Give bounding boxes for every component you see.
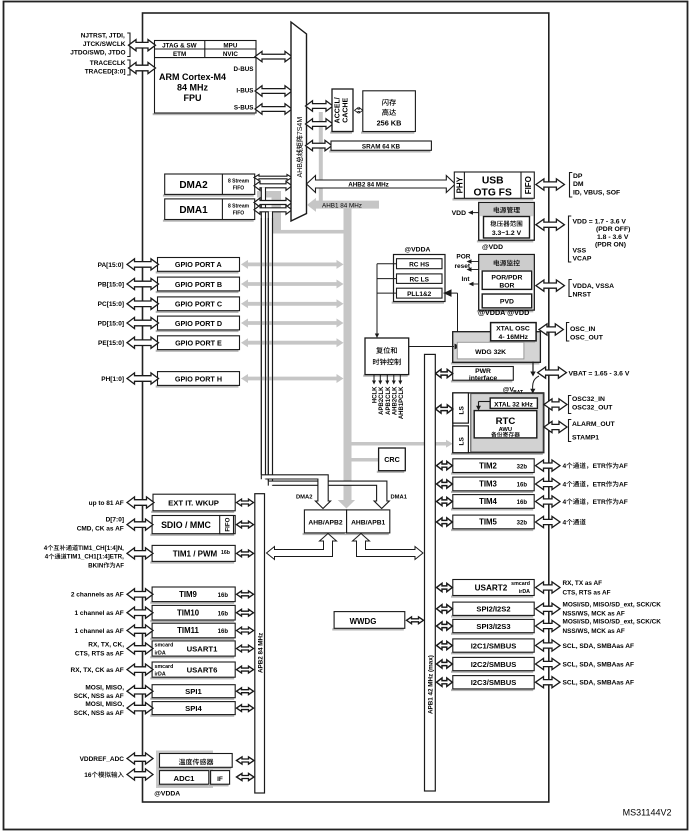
flash box xyxy=(361,132,414,134)
arrow OSC external xyxy=(539,324,563,335)
svg-text:SCL, SDA, SMBAas AF: SCL, SDA, SMBAas AF xyxy=(563,643,635,650)
svg-text:OSC_IN: OSC_IN xyxy=(570,326,595,333)
GPIO PORT H box xyxy=(156,385,239,387)
svg-text:STAMP1: STAMP1 xyxy=(572,435,599,442)
clock gray box xyxy=(451,362,540,364)
svg-text:SCL, SDA, SMBAas AF: SCL, SDA, SMBAas AF xyxy=(563,661,635,668)
arrow I2C1/SMBUS pins xyxy=(536,640,561,651)
arrow VBAT external xyxy=(538,367,567,378)
DMA2 channel line redraw xyxy=(260,218,262,475)
DMA1 channel elbow and arrow into AHB/APB1 xyxy=(268,481,389,508)
svg-text:PC[15:0]: PC[15:0] xyxy=(98,301,124,308)
CPU ARM Cortex-M4 box xyxy=(153,113,255,115)
arrow temp-APB2 xyxy=(237,757,255,764)
svg-text:1.8 - 3.6 V: 1.8 - 3.6 V xyxy=(597,234,629,241)
svg-text:ETR: ETR xyxy=(593,499,606,506)
RC container box xyxy=(392,302,444,304)
RTC box xyxy=(474,411,537,438)
svg-text:TIM4: TIM4 xyxy=(479,497,497,506)
ADC1 box xyxy=(158,784,208,786)
svg-text:JTCK/SWCLK: JTCK/SWCLK xyxy=(83,41,126,48)
svg-text:AHB/APB2: AHB/APB2 xyxy=(308,520,342,527)
PLL box xyxy=(397,288,443,298)
arrow I2C3/SMBUS-APB1 xyxy=(437,678,453,686)
svg-text:ADC1: ADC1 xyxy=(174,774,196,783)
svg-text:OTG FS: OTG FS xyxy=(474,188,512,199)
svg-text:D[7:0]: D[7:0] xyxy=(106,517,124,524)
svg-text:CTS, RTS as AF: CTS, RTS as AF xyxy=(563,589,611,596)
svg-text:AF: AF xyxy=(619,481,628,488)
svg-text:BKIN: BKIN xyxy=(88,562,104,569)
svg-text:OSC32_IN: OSC32_IN xyxy=(572,396,605,403)
arrow TIM2 pins xyxy=(536,460,561,471)
svg-text:GPIO PORT D: GPIO PORT D xyxy=(175,319,222,328)
SPI2/I2S2 box xyxy=(451,615,533,617)
TIM3 box xyxy=(451,491,533,493)
svg-text:NSS/WS, MCK as AF: NSS/WS, MCK as AF xyxy=(563,611,625,618)
svg-text:1 channel as AF: 1 channel as AF xyxy=(75,628,124,635)
svg-text:ETR: ETR xyxy=(593,481,606,488)
arrow OSC32 external xyxy=(544,399,567,410)
svg-text:D-BUS: D-BUS xyxy=(234,66,254,73)
svg-text:OSC32_OUT: OSC32_OUT xyxy=(572,405,613,412)
temp sensor box xyxy=(158,767,232,769)
USART1 box xyxy=(150,656,234,658)
svg-text:PB[15:0]: PB[15:0] xyxy=(98,281,124,288)
svg-text:VDD = 1.7 - 3.6 V: VDD = 1.7 - 3.6 V xyxy=(573,219,627,226)
arrow I2C1/SMBUS-APB1 xyxy=(437,641,453,649)
svg-text:TIM1_CH1[1:4]ETR,: TIM1_CH1[1:4]ETR, xyxy=(67,554,124,561)
GPIO PORT D box xyxy=(156,330,239,332)
arrow NVIC to matrix xyxy=(255,51,292,61)
arrow SPI2/I2S2 pins xyxy=(536,603,561,614)
svg-text:MPU: MPU xyxy=(223,42,237,49)
arrow bridge to APB2 bar xyxy=(267,534,337,560)
svg-text:3.3~1.2 V: 3.3~1.2 V xyxy=(492,230,522,237)
gray bus vertical drop to GPIO bar xyxy=(272,191,282,234)
svg-text:MOSI/SD, MISO/SD_ext, SCK/CK: MOSI/SD, MISO/SD_ext, SCK/CK xyxy=(563,601,662,608)
wire RC LS stub xyxy=(377,278,397,280)
power monitor 电源监控 box xyxy=(477,310,533,312)
svg-text:PWR: PWR xyxy=(475,368,491,375)
arrow USART6-APB2 xyxy=(237,666,254,673)
gray bus GPIO PORT D link xyxy=(247,321,338,325)
SDIO FIFO box xyxy=(220,516,234,534)
arrow SDIO pins xyxy=(127,519,153,530)
svg-text:S-BUS: S-BUS xyxy=(234,105,254,112)
svg-text:PA[15:0]: PA[15:0] xyxy=(98,262,124,269)
svg-text:AHB1PCLK: AHB1PCLK xyxy=(399,386,405,419)
svg-text:AF: AF xyxy=(619,463,628,470)
AHB/APB2 bridge box xyxy=(303,533,346,535)
svg-text:RX, TX, CK,: RX, TX, CK, xyxy=(88,642,124,649)
label FIFO xyxy=(524,176,533,194)
svg-text:I2C1/SMBUS: I2C1/SMBUS xyxy=(471,641,517,650)
svg-text:4- 16MHz: 4- 16MHz xyxy=(499,334,529,341)
svg-text:SDIO / MMC: SDIO / MMC xyxy=(161,520,211,530)
arrow TIM11-APB2 xyxy=(237,627,254,634)
wire PLL stub xyxy=(377,292,397,294)
PVD box xyxy=(482,294,532,308)
svg-text:AHB2CLK: AHB2CLK xyxy=(392,386,398,415)
POR/PDR BOR box xyxy=(482,271,532,289)
arrow EXT IT pins xyxy=(127,497,154,508)
gray bus AHB1 arrowhead into AHB/APB1 xyxy=(338,500,355,509)
svg-text:4: 4 xyxy=(563,463,567,470)
svg-text:SRAM 64 KB: SRAM 64 KB xyxy=(362,143,401,150)
svg-text:AF: AF xyxy=(619,499,628,506)
svg-text:SPI4: SPI4 xyxy=(185,704,202,713)
svg-text:32b: 32b xyxy=(517,521,528,527)
svg-text:4: 4 xyxy=(563,519,567,526)
I2C3/SMBUS box xyxy=(451,689,533,691)
svg-text:USART2: USART2 xyxy=(475,584,508,593)
arrow S-BUS to matrix xyxy=(255,104,292,114)
arrow matrix-ACCEL upper xyxy=(306,101,334,111)
svg-text:16: 16 xyxy=(84,772,92,779)
gray spur RTC LS arrow segment xyxy=(435,442,446,446)
arrow DMA2-matrix thin xyxy=(254,175,292,181)
wire Int arrow xyxy=(471,283,479,285)
label 备份寄存器 xyxy=(491,432,520,437)
svg-text:XTAL 32 kHz: XTAL 32 kHz xyxy=(494,401,534,408)
wire RC into RCC arrowhead xyxy=(375,334,379,339)
arrow port D pins xyxy=(127,317,159,328)
svg-text:PD[15:0]: PD[15:0] xyxy=(98,320,124,327)
AHB/APB1 bridge box xyxy=(345,533,389,535)
svg-text:PH[1:0]: PH[1:0] xyxy=(101,376,124,383)
wire XTAL to PLL xyxy=(444,292,458,294)
arrow SPI4-APB2 xyxy=(237,705,254,712)
arrow WWDG-APB1 xyxy=(407,617,424,624)
connector ACCEL-flash xyxy=(355,108,363,113)
gray bus AHB1 vertical spur near flash xyxy=(319,112,323,204)
svg-text:TRACECLK: TRACECLK xyxy=(90,60,126,67)
label LS lower xyxy=(458,437,465,446)
svg-text:84 MHz: 84 MHz xyxy=(177,83,209,93)
TIM2 box xyxy=(451,472,533,474)
I2C1/SMBUS box xyxy=(451,652,533,654)
svg-text:7S4M: 7S4M xyxy=(297,117,304,135)
TIM9 box xyxy=(150,602,234,604)
svg-text:VDDA, VSSA: VDDA, VSSA xyxy=(573,283,615,290)
bracket VDDA pins xyxy=(569,280,572,297)
svg-text:ALARM_OUT: ALARM_OUT xyxy=(572,421,616,428)
arrow I-BUS to matrix xyxy=(255,86,292,96)
XTAL 32kHz box xyxy=(490,398,537,408)
arrow bridge to APB1 bar xyxy=(353,534,424,560)
gray bus DMA-area patch xyxy=(257,191,281,198)
svg-text:WWDG: WWDG xyxy=(350,617,377,626)
arrow adc-APB2 xyxy=(237,773,255,780)
arrow port E pins xyxy=(127,337,159,348)
svg-text:up to 81 AF: up to 81 AF xyxy=(89,500,124,507)
arrow TIM9 pins xyxy=(127,589,153,600)
svg-text:SPI3/I2S3: SPI3/I2S3 xyxy=(476,622,510,631)
svg-text:@VDDA: @VDDA xyxy=(154,791,180,798)
svg-text:RC LS: RC LS xyxy=(409,276,429,283)
svg-text:DM: DM xyxy=(573,181,584,188)
USART2 box xyxy=(451,596,533,598)
label 温度传感器 xyxy=(179,759,214,766)
GPIO PORT C box xyxy=(156,311,239,313)
I2C2/SMBUS box xyxy=(451,671,533,673)
DMA2 channel elbow and arrow into AHB/APB2 xyxy=(261,475,330,509)
gray AHB1 bus arrow xyxy=(307,198,379,212)
arrow matrix-ACCEL lower xyxy=(306,119,334,129)
svg-text:SPI1: SPI1 xyxy=(185,687,202,696)
arrow TIM5 pins xyxy=(536,516,561,527)
CRC box xyxy=(377,471,405,473)
svg-text:16b: 16b xyxy=(218,593,229,599)
svg-text:32b: 32b xyxy=(517,464,528,470)
TIM1/PWM box xyxy=(150,561,234,563)
TIM5 box xyxy=(451,529,533,531)
svg-text:RX, TX as AF: RX, TX as AF xyxy=(563,580,603,587)
arrow SPI3/I2S3-APB1 xyxy=(437,622,453,630)
svg-text:8 Stream: 8 Stream xyxy=(228,179,250,185)
svg-text:@VDD: @VDD xyxy=(482,244,503,251)
arrow I2C2/SMBUS-APB1 xyxy=(437,660,453,668)
svg-text:TIM9: TIM9 xyxy=(179,590,197,599)
arrow port A pins xyxy=(127,259,159,270)
svg-text:ARM Cortex-M4: ARM Cortex-M4 xyxy=(159,72,226,82)
label 复位和 xyxy=(376,347,397,354)
svg-text:FIFO: FIFO xyxy=(524,176,533,194)
arrow TIM3-APB1 xyxy=(437,480,453,488)
DMA1 divider xyxy=(221,199,223,220)
svg-text:LS: LS xyxy=(458,437,465,446)
svg-text:4: 4 xyxy=(563,481,567,488)
label APB2 84 MHz xyxy=(257,633,264,673)
wire VBAT down arrow xyxy=(532,362,534,373)
DMA1 box xyxy=(163,220,254,222)
svg-text:Int: Int xyxy=(462,276,471,283)
gray bus GPIO horizontal bar xyxy=(279,230,345,234)
svg-text:CMD, CK as AF: CMD, CK as AF xyxy=(77,526,124,533)
svg-text:irDA: irDA xyxy=(155,651,166,657)
power monitor header xyxy=(479,255,533,270)
svg-text:AF: AF xyxy=(116,562,124,569)
svg-text:USART6: USART6 xyxy=(187,665,218,674)
arrow TIM4-APB1 xyxy=(437,497,453,505)
gray bus GPIO PORT H link xyxy=(247,377,338,381)
arrow EXT IT-APB2 xyxy=(237,499,254,506)
wire VDD arrow xyxy=(471,212,479,214)
arrow port H pins xyxy=(127,373,159,384)
SPI1 box xyxy=(150,698,234,700)
svg-text:NVIC: NVIC xyxy=(223,51,238,58)
DMA1 channel line redraw xyxy=(267,218,269,481)
arrow USART6 pins xyxy=(127,664,153,675)
arrow DMA1-matrix lower xyxy=(254,205,292,214)
arrow VDD external xyxy=(536,219,565,230)
arrow I2C3/SMBUS pins xyxy=(536,677,561,688)
APB2 bus bar xyxy=(255,494,265,793)
GPIO PORT E box xyxy=(156,350,239,352)
WDG 32K box xyxy=(457,342,524,359)
power mgmt header xyxy=(479,203,533,216)
svg-text:irDA: irDA xyxy=(155,672,166,678)
bracket ALARM xyxy=(569,420,572,442)
svg-text:NRST: NRST xyxy=(573,292,592,299)
label flash 高达 xyxy=(382,109,396,116)
svg-text:TIM5: TIM5 xyxy=(479,518,497,527)
svg-text:IF: IF xyxy=(217,776,223,783)
arrow TIM9-APB2 xyxy=(237,591,254,598)
svg-text:DMA1: DMA1 xyxy=(179,205,208,216)
label ACCEL/CACHE xyxy=(334,97,341,123)
gray spur to CRC xyxy=(352,458,379,462)
ADC gray domain box xyxy=(156,751,213,789)
arrow temp pins xyxy=(127,753,153,764)
svg-text:4: 4 xyxy=(44,545,48,552)
arrow port B pins xyxy=(127,278,159,289)
PWR interface box xyxy=(451,380,512,382)
label APB1 42 MHz xyxy=(428,655,435,714)
svg-text:NJTRST, JTDI,: NJTRST, JTDI, xyxy=(81,33,125,40)
svg-text:ETR: ETR xyxy=(593,463,606,470)
EXT IT WKUP box xyxy=(151,511,234,513)
arrow TIM1-APB2 xyxy=(237,550,254,557)
RTC backup gray domain xyxy=(471,394,543,452)
label 稳压器范围 xyxy=(490,220,522,226)
arrow TIM10-APB2 xyxy=(237,609,254,616)
svg-text:TIM2: TIM2 xyxy=(479,461,497,470)
svg-text:CTS, RTS as AF: CTS, RTS as AF xyxy=(75,650,124,657)
svg-text:MS31144V2: MS31144V2 xyxy=(623,808,672,818)
svg-text:I2C3/SMBUS: I2C3/SMBUS xyxy=(471,678,517,687)
arrow TIM10 pins xyxy=(127,607,153,618)
svg-text:16b: 16b xyxy=(218,629,229,635)
arrow VDDA external xyxy=(536,280,565,291)
svg-text:FIFO: FIFO xyxy=(233,186,244,192)
svg-text:PE[15:0]: PE[15:0] xyxy=(98,340,124,347)
svg-text:4: 4 xyxy=(45,554,49,561)
CPU row divider lines xyxy=(155,48,257,50)
label flash 闪存 xyxy=(382,99,396,106)
svg-text:NSS/WS, MCK as AF: NSS/WS, MCK as AF xyxy=(563,628,625,635)
svg-text:smcard: smcard xyxy=(155,664,174,670)
regulator box xyxy=(484,217,530,239)
svg-text:ACCEL/: ACCEL/ xyxy=(334,97,341,123)
svg-text:TIM1 / PWM: TIM1 / PWM xyxy=(173,549,218,558)
arrow TIM11 pins xyxy=(127,625,153,636)
svg-text:2 channels as AF: 2 channels as AF xyxy=(71,592,124,599)
svg-text:VDD: VDD xyxy=(452,210,466,217)
wire RCC to WDG box xyxy=(409,346,454,348)
arrow I2C2/SMBUS pins xyxy=(536,658,561,669)
wire VBAT to backup curve xyxy=(533,376,539,390)
label LS upper xyxy=(458,406,465,415)
svg-text:TIM1_CH[1:4]N,: TIM1_CH[1:4]N, xyxy=(78,545,124,552)
SPI4 box xyxy=(150,715,234,717)
DMA2 box xyxy=(163,194,254,196)
svg-text:VSS: VSS xyxy=(573,248,587,255)
USART6 box xyxy=(150,677,234,679)
svg-text:JTAG & SW: JTAG & SW xyxy=(162,42,197,49)
svg-text:SPI2/I2S2: SPI2/I2S2 xyxy=(476,605,510,614)
svg-text:JTDO/SWD, JTDO: JTDO/SWD, JTDO xyxy=(70,50,125,57)
svg-text:MOSI/SD, MISO/SD_ext, SCK/CK: MOSI/SD, MISO/SD_ext, SCK/CK xyxy=(563,619,662,626)
SDIO/MMC box xyxy=(150,534,234,536)
svg-text:ETM: ETM xyxy=(173,51,186,58)
svg-text:VBAT = 1.65 - 3.6 V: VBAT = 1.65 - 3.6 V xyxy=(569,371,630,378)
svg-text:APB2 84 MHz: APB2 84 MHz xyxy=(257,633,264,673)
svg-text:POR: POR xyxy=(456,254,470,261)
RCC clock output labels xyxy=(373,386,379,403)
svg-text:256 KB: 256 KB xyxy=(377,119,402,128)
RTC outer box xyxy=(451,453,543,455)
svg-text:smcard: smcard xyxy=(155,643,174,649)
svg-text:APB1CLK: APB1CLK xyxy=(386,386,392,415)
svg-text:WDG 32K: WDG 32K xyxy=(475,349,506,356)
SPI3/I2S3 box xyxy=(451,633,533,635)
gray bus GPIO PORT B link xyxy=(247,282,338,286)
DMA1 peripheral-bus channel vertical xyxy=(268,211,272,485)
svg-text:(PDR OFF): (PDR OFF) xyxy=(596,226,630,233)
svg-text:CACHE: CACHE xyxy=(342,98,349,123)
AHB bus matrix trapezoid xyxy=(291,22,307,221)
label PHY xyxy=(455,176,464,193)
XTAL OSC box xyxy=(489,341,535,343)
WWDG box xyxy=(332,628,404,630)
svg-text:LS: LS xyxy=(458,406,465,415)
wire XTAL32 to RTC xyxy=(479,401,491,403)
svg-text:RTC: RTC xyxy=(496,416,516,427)
ADC IF box xyxy=(209,784,229,786)
svg-text:PLL1&2: PLL1&2 xyxy=(407,291,432,298)
arrow TIM2-APB1 xyxy=(437,461,453,469)
svg-text:PVD: PVD xyxy=(500,299,514,306)
label AHB bus matrix 7S4M xyxy=(296,117,304,178)
GPIO PORT A box xyxy=(156,271,239,273)
svg-text:16b: 16b xyxy=(218,611,229,617)
MCU inner border xyxy=(143,13,549,802)
DMA2 divider xyxy=(221,174,223,194)
svg-text:irDA: irDA xyxy=(519,589,530,595)
bracket jtag signals xyxy=(127,33,130,57)
svg-text:FPU: FPU xyxy=(184,93,202,103)
TIM4 box xyxy=(451,508,533,510)
svg-text:VDDREF_ADC: VDDREF_ADC xyxy=(80,756,125,763)
bracket OSC pins xyxy=(567,323,570,342)
svg-text:DP: DP xyxy=(573,173,583,180)
wire RC HS stub xyxy=(377,263,397,265)
gray bus GPIO PORT E link xyxy=(247,341,338,345)
arrow TIM1 pins xyxy=(127,548,153,559)
arrow AHB2 bus xyxy=(307,176,456,193)
svg-text:RX, TX, CK as AF: RX, TX, CK as AF xyxy=(71,667,124,674)
svg-text:DMA2: DMA2 xyxy=(296,495,312,501)
svg-text:DMA2: DMA2 xyxy=(179,180,208,191)
svg-text:CRC: CRC xyxy=(384,455,400,464)
svg-text:VCAP: VCAP xyxy=(573,256,592,263)
svg-text:HCLK: HCLK xyxy=(373,386,379,403)
svg-text:AHB1 84 MHz: AHB1 84 MHz xyxy=(322,202,362,209)
arrow APB1-PWR xyxy=(436,369,453,377)
svg-text:GPIO PORT E: GPIO PORT E xyxy=(175,339,222,348)
svg-text:I-BUS: I-BUS xyxy=(236,88,253,95)
label 电源监控 xyxy=(494,260,520,266)
svg-text:POR/PDR: POR/PDR xyxy=(491,275,522,282)
svg-text:SCK, NSS as AF: SCK, NSS as AF xyxy=(74,710,124,717)
arrow adc pins xyxy=(127,769,153,780)
svg-text:DMA1: DMA1 xyxy=(391,495,408,501)
bracket USB pins xyxy=(570,173,573,198)
label 时钟控制 xyxy=(373,358,401,365)
arrow TIM5-APB1 xyxy=(437,518,453,526)
